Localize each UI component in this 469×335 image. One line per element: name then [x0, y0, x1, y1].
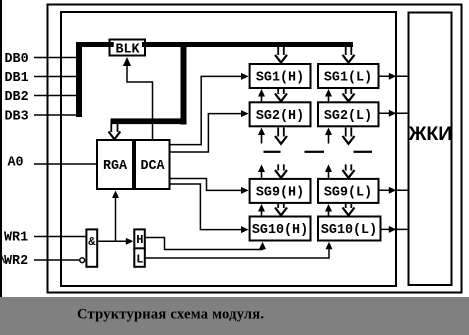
data bus thick vertical mid — [181, 42, 187, 125]
segment block SG1(L) — [318, 64, 379, 88]
hollow arrow bus to SG1(L) — [343, 47, 355, 63]
wire DCA to SG9(H) — [171, 179, 242, 191]
block BLK — [110, 40, 146, 56]
svg-text:SG10(H): SG10(H) — [252, 223, 308, 238]
svg-text:&: & — [88, 235, 96, 249]
wire SG10(L) to LCD — [382, 228, 408, 230]
hollow arrow bus to RGA — [109, 124, 121, 139]
wire L to SG10(L) — [146, 249, 329, 258]
svg-text:SG9(H): SG9(H) — [256, 185, 304, 200]
wire DCA to SG1(H) — [171, 76, 242, 144]
svg-text:DB2: DB2 — [5, 90, 29, 105]
up arrow above SG9(L) — [328, 171, 330, 178]
LCD block ЖКИ — [409, 13, 452, 286]
wire SG2(L) to LCD — [380, 112, 408, 114]
hollow arrow bus to SG1(H) — [275, 47, 287, 63]
wire DCA to SG10(H) — [171, 184, 242, 230]
wire H to SG10(H) — [146, 238, 263, 250]
svg-text:H: H — [136, 233, 143, 247]
hollow arrow SG1(L) to SG2(L) — [343, 89, 355, 101]
wire DB0 — [34, 57, 80, 59]
ellipsis dash 1 — [264, 151, 281, 153]
svg-text:DB1: DB1 — [5, 71, 29, 86]
segment block SG2(L) — [318, 102, 379, 126]
data bus thick horizontal to RGA — [111, 118, 187, 124]
svg-text:A0: A0 — [8, 156, 24, 171]
data bus thick vertical left — [76, 42, 82, 117]
segment block SG9(L) — [318, 179, 379, 203]
data bus thick horizontal — [76, 42, 353, 47]
svg-text:SG10(L): SG10(L) — [321, 223, 377, 238]
ellipsis dash 3 — [354, 151, 373, 153]
segment block SG10(L) — [318, 217, 381, 241]
up arrow SG10(L) to SG9(L) — [328, 211, 330, 216]
up arrow SG2(H) to SG1(H) — [261, 96, 263, 102]
svg-text:ЖКИ: ЖКИ — [408, 123, 453, 145]
wire WR2 — [34, 259, 81, 261]
gray caption band — [0, 297, 469, 335]
wire DB3 — [34, 114, 80, 116]
hollow arrow SG9(H) to SG10(H) — [275, 204, 287, 215]
hollow arrow SG1(H) to SG2(H) — [275, 89, 287, 101]
hollow arrow SG9(L) to SG10(L) — [343, 204, 355, 215]
up arrow below SG2(L) — [328, 134, 330, 144]
inner frame — [61, 12, 396, 286]
svg-text:DB3: DB3 — [5, 110, 29, 125]
hollow arrow above SG9(H) — [275, 164, 287, 177]
segment block SG1(H) — [250, 64, 311, 88]
up arrow SG2(L) to SG1(L) — [328, 96, 330, 102]
wire DB1 — [34, 76, 80, 78]
hollow arrow above SG9(L) — [343, 164, 355, 177]
svg-text:DB0: DB0 — [5, 52, 29, 67]
wire SG1(L) to LCD — [380, 75, 408, 77]
svg-text:SG2(L): SG2(L) — [324, 109, 372, 124]
svg-text:RGA: RGA — [103, 159, 128, 174]
up arrow above SG9(H) — [261, 171, 263, 178]
wire WR1 — [34, 236, 85, 238]
svg-text:DCA: DCA — [140, 159, 165, 174]
segment block SG2(H) — [250, 102, 311, 126]
svg-text:Структурная схема модуля.: Структурная схема модуля. — [77, 307, 264, 323]
outer frame — [48, 5, 462, 293]
svg-text:SG1(L): SG1(L) — [324, 71, 372, 86]
segment block SG10(H) — [250, 217, 311, 241]
svg-text:SG9(L): SG9(L) — [324, 185, 372, 200]
up arrow below SG2(H) — [261, 134, 263, 144]
register RGA — [97, 140, 133, 189]
segment block SG9(H) — [250, 179, 311, 203]
wire gate output — [98, 240, 127, 242]
wire SG9(L) to LCD — [380, 189, 408, 191]
inverter bubble WR2 — [80, 258, 85, 263]
svg-text:WR1: WR1 — [4, 231, 28, 246]
svg-text:WR2: WR2 — [4, 254, 28, 269]
wire junction to RGA — [115, 197, 117, 242]
wire DCA to SG2(H) — [171, 114, 242, 152]
wire A0 — [34, 163, 96, 165]
hollow arrow below SG2(L) — [343, 128, 355, 144]
svg-text:BLK: BLK — [115, 43, 140, 58]
hollow arrow below SG2(H) — [275, 128, 287, 144]
svg-text:SG2(H): SG2(H) — [256, 109, 304, 124]
wire DB2 — [34, 95, 80, 97]
gate & — [86, 229, 97, 266]
wire DCA to BLK — [127, 63, 153, 139]
decoder DCA — [135, 140, 170, 189]
left black margin bar — [0, 0, 2, 297]
active-low tick — [1, 255, 5, 264]
block H/L — [134, 229, 145, 266]
svg-text:L: L — [136, 253, 143, 267]
svg-text:SG1(H): SG1(H) — [256, 71, 304, 86]
ellipsis dash 2 — [305, 151, 325, 153]
up arrow SG10(H) to SG9(H) — [261, 211, 263, 216]
